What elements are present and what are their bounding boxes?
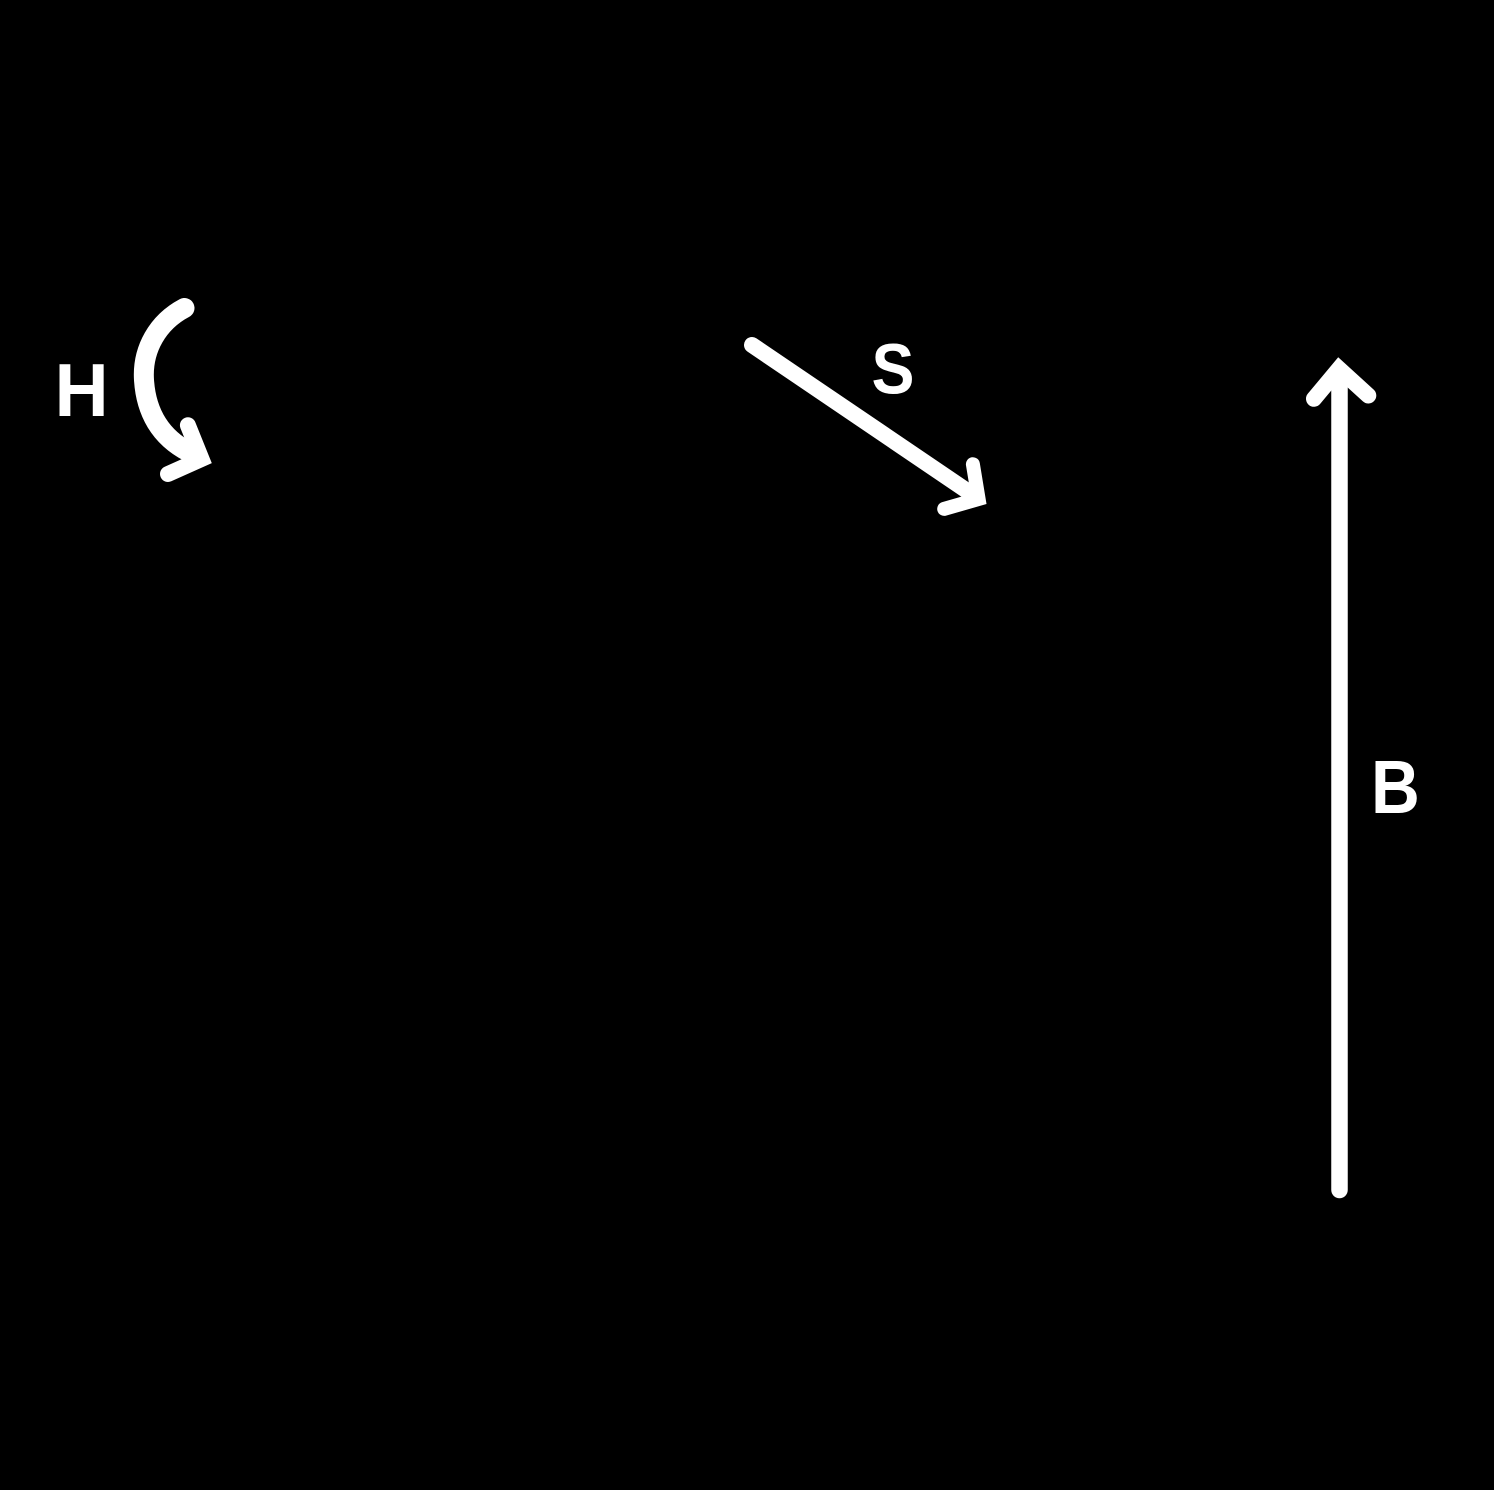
svg-text:B: B [1371,746,1420,830]
svg-text:H: H [55,348,109,432]
svg-text:S: S [872,330,915,409]
